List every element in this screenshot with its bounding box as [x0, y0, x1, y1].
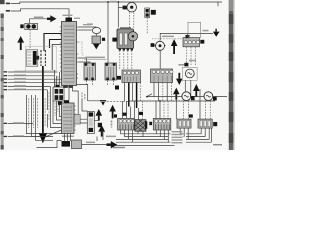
wire label (gray) — [34, 17, 44, 19]
crank sensor circle — [151, 43, 155, 47]
left margin strip — [0, 0, 5, 4]
ECU1 engine control module — [60, 15, 80, 88]
vertical wire label text column — [111, 121, 113, 128]
main vertical wire from bus to injector 2 — [107, 2, 109, 63]
crank sensor wire up to bus — [160, 33, 213, 40]
wire loop box top-right — [188, 22, 201, 37]
wire from arrow to connector B4 — [175, 100, 177, 119]
bottom step wire — [37, 141, 62, 148]
firewall connector J1 — [25, 46, 56, 70]
DI ignition cassette — [112, 27, 137, 50]
arrows up bottom-center — [96, 109, 103, 121]
dashed L wire — [78, 42, 84, 55]
harness verticals to ECU2 elbows — [60, 72, 62, 117]
bus 30 top horizontal wire — [11, 2, 222, 4]
bold wire drops — [128, 83, 130, 107]
ECU2 side box — [74, 115, 80, 125]
bottom connector B3 — [153, 118, 171, 130]
small black label squares above bottom row — [123, 112, 193, 125]
injector 1 — [84, 63, 96, 80]
drops from bus to B1 — [122, 101, 124, 118]
bottom connector B1 — [118, 118, 135, 130]
dashed label row — [152, 38, 186, 40]
connector pin label text columns — [41, 50, 45, 66]
MAP sensor (oval) — [92, 27, 100, 33]
bottom connector B5 — [198, 119, 217, 128]
arrow down right of M2 — [176, 73, 183, 85]
bus wires mid-right — [128, 100, 215, 102]
crank sensor wire down — [159, 50, 161, 70]
sensor body box — [92, 36, 101, 44]
arrow up center-right — [193, 84, 200, 97]
dashed bus segment — [107, 101, 128, 103]
M1 pin drops — [124, 83, 126, 102]
ECU1 right wires to MAP sensor stack — [78, 26, 96, 28]
fan motor 2 — [182, 92, 191, 101]
wire row 11 — [8, 89, 47, 91]
throttle switch F — [145, 8, 150, 18]
wire row 10 — [8, 85, 50, 87]
ignition coil relay box — [53, 70, 55, 87]
fuel pump block B2 (cross hatch) — [135, 120, 147, 132]
wire labels right of bottom fan — [172, 131, 183, 143]
arrow up A1 (supply from fuse box) — [17, 36, 24, 50]
right margin strip — [229, 0, 235, 150]
fan motor 3 — [204, 92, 213, 101]
wire row 9 — [8, 82, 62, 84]
main battery feed thick wire with down arrow — [42, 66, 44, 133]
injector bracket label — [84, 59, 107, 61]
connector block M1 — [117, 70, 141, 83]
ECU1 bottom harness elbows — [68, 88, 70, 100]
bottom-center wiring — [62, 141, 71, 147]
drops to B2 — [138, 108, 140, 120]
M2 pin drops — [153, 83, 155, 97]
arrow down below sensor — [93, 44, 100, 50]
dashed drop from switch — [29, 30, 31, 48]
injector 2 — [105, 63, 117, 80]
arrow up below it — [173, 88, 180, 100]
ground symbol — [100, 100, 106, 102]
arrow right (to starter) — [47, 15, 57, 22]
wire from ignition switch to arrow — [30, 19, 48, 24]
idle air control valve — [127, 2, 137, 12]
wire row 8 — [8, 78, 62, 80]
ignition switch S1 — [25, 23, 38, 29]
arrow up at knock sensor — [171, 39, 178, 54]
bottom-left wire 5 — [8, 123, 33, 125]
wire drop to DI cassette — [117, 2, 119, 28]
connector label square — [114, 114, 117, 117]
wire row 7 — [8, 75, 54, 77]
arrow down top-right corner — [215, 29, 217, 32]
ECU2 lower module — [62, 100, 76, 133]
bottom-left wire 12 with diagonal — [8, 130, 62, 137]
wire row 4 — [8, 71, 58, 73]
air mass meter block — [183, 35, 204, 47]
boost valve by ECU2 — [87, 112, 94, 134]
bus 15 second top wire — [11, 9, 69, 22]
bottom connector B4 — [177, 119, 191, 128]
radiator fan motor 1 — [182, 67, 197, 80]
drops to B3 — [155, 101, 157, 118]
bottom fan wiring — [121, 130, 133, 142]
vertical wire-colour text columns (gray) — [29, 76, 58, 128]
harness verticals to bottom-left elbows — [27, 95, 62, 134]
connector block M2 — [151, 69, 174, 83]
elbow wires to ECU — [44, 34, 62, 52]
wires to injectors — [78, 58, 86, 63]
terminal label 30 — [6, 3, 10, 12]
